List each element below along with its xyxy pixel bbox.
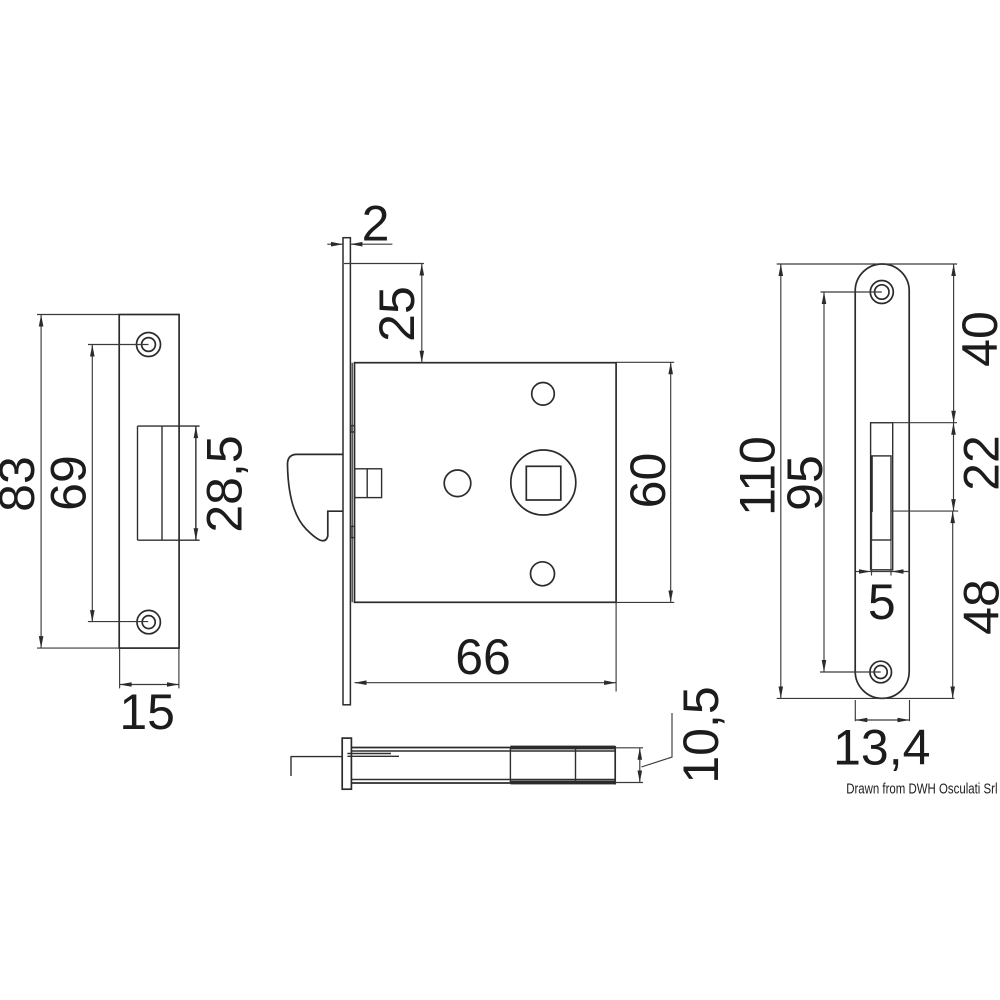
right view: bottom screw hole bbox=[870, 661, 892, 683]
svg-text:5: 5 bbox=[868, 574, 896, 630]
bottom view: hook bolt protruding bbox=[291, 757, 343, 776]
dimension 10,5 bbox=[615, 686, 729, 783]
svg-text:25: 25 bbox=[369, 286, 425, 342]
right view: top screw hole bbox=[870, 281, 893, 304]
bottom view: faceplate bar bbox=[342, 738, 351, 789]
left view: top screw hole bbox=[137, 333, 161, 357]
svg-text:40: 40 bbox=[952, 311, 1000, 367]
dimension 66 bbox=[355, 602, 617, 691]
svg-text:2: 2 bbox=[362, 196, 390, 252]
svg-text:15: 15 bbox=[119, 684, 175, 740]
dimension 83 bbox=[0, 315, 119, 649]
right view: hook slot outer bbox=[871, 423, 893, 570]
left view: strike plate outline bbox=[119, 315, 179, 649]
dimension 69 bbox=[41, 345, 149, 623]
svg-text:22: 22 bbox=[954, 435, 1000, 491]
front view: lock case body bbox=[355, 363, 617, 603]
dimension 13,4 bbox=[833, 700, 930, 776]
dimension 5 bbox=[855, 540, 909, 630]
dimension 40 bbox=[871, 264, 1000, 423]
dimension 95 bbox=[777, 292, 882, 672]
svg-text:60: 60 bbox=[620, 453, 676, 509]
bottom view: case profile bbox=[351, 746, 615, 785]
front view: faceplate bbox=[343, 237, 350, 706]
dimension 28,5 bbox=[196, 426, 253, 540]
right view: strike faceplate outline rounded bbox=[855, 264, 909, 698]
svg-text:13,4: 13,4 bbox=[833, 720, 930, 776]
svg-text:Drawn from DWH Osculati Srl: Drawn from DWH Osculati Srl bbox=[846, 781, 997, 798]
svg-text:95: 95 bbox=[777, 455, 833, 511]
bottom view: latch detail lines bbox=[347, 754, 399, 757]
dimension 60 bbox=[616, 362, 676, 602]
svg-text:69: 69 bbox=[41, 455, 97, 511]
front view: top fixing hole bbox=[532, 383, 555, 406]
dimension 48 bbox=[953, 511, 1000, 698]
dimension 15 bbox=[119, 648, 179, 740]
dimension 22 bbox=[891, 423, 1000, 511]
front view: left small hole bbox=[444, 470, 471, 497]
left view: bottom screw hole bbox=[137, 610, 160, 633]
svg-text:48: 48 bbox=[954, 579, 1000, 635]
dimension 110 bbox=[730, 264, 958, 698]
dimension 2 bbox=[327, 196, 392, 252]
right view: hook slot inner bbox=[872, 456, 892, 540]
svg-text:83: 83 bbox=[0, 456, 45, 512]
front view: case edge strip bbox=[351, 363, 355, 603]
front view: bottom fixing hole bbox=[531, 562, 555, 586]
front view: hook bolt bbox=[287, 454, 343, 540]
svg-text:66: 66 bbox=[455, 629, 511, 685]
left view: latch box opening bbox=[138, 426, 200, 540]
footer credit text bbox=[846, 781, 997, 798]
front view: spindle hub with square hole bbox=[511, 450, 576, 515]
front view: follower latch stub bbox=[355, 469, 382, 498]
svg-text:10,5: 10,5 bbox=[673, 686, 729, 783]
svg-text:28,5: 28,5 bbox=[197, 435, 253, 532]
dimension 25 bbox=[344, 264, 425, 363]
